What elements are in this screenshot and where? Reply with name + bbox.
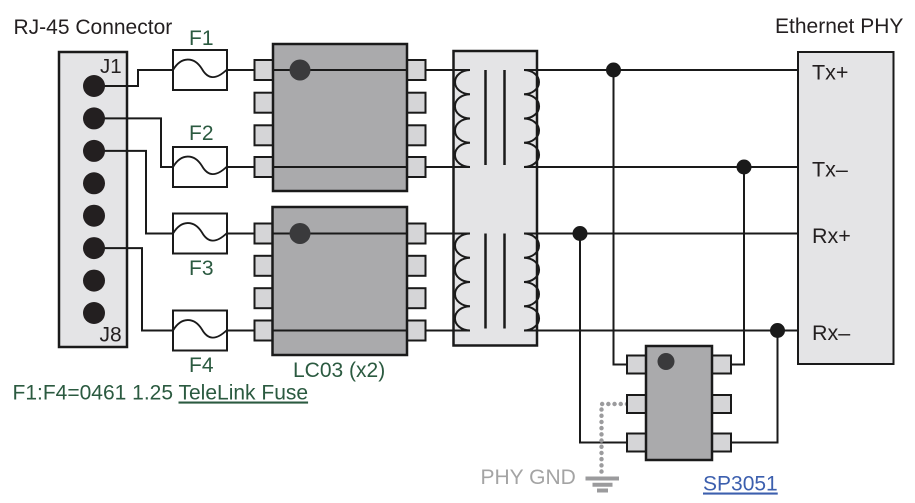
wire Tx- to U3 pin8 bbox=[731, 167, 744, 365]
junction Rx+ bbox=[573, 226, 588, 241]
svg-text:J1: J1 bbox=[100, 55, 122, 78]
svg-text:PHY GND: PHY GND bbox=[481, 466, 576, 489]
wire F2 to U1 bbox=[227, 166, 254, 168]
junction Tx+ bbox=[606, 63, 621, 78]
svg-text:RJ-45 Connector: RJ-45 Connector bbox=[14, 16, 173, 39]
wire Rx- net bbox=[524, 330, 798, 332]
RJ-45 connector J1 body bbox=[59, 52, 127, 347]
svg-text:F2: F2 bbox=[189, 122, 214, 145]
transformer T1 bbox=[454, 51, 540, 346]
svg-text:Rx+: Rx+ bbox=[812, 224, 851, 248]
wire U1 pin5 to transformer bbox=[426, 166, 471, 168]
svg-text:SP3051: SP3051 bbox=[703, 473, 778, 496]
wire U1 pin8 to transformer bbox=[426, 69, 471, 71]
svg-text:LC03 (x2): LC03 (x2) bbox=[293, 359, 385, 382]
connector pin 2 bbox=[83, 107, 105, 129]
svg-text:Ethernet PHY: Ethernet PHY bbox=[775, 15, 903, 38]
Ethernet PHY block bbox=[798, 52, 894, 364]
wire Rx+ net bbox=[524, 233, 798, 235]
svg-text:F4: F4 bbox=[189, 354, 214, 377]
wire pin3 to fuse F3 bbox=[100, 151, 173, 234]
svg-text:J8: J8 bbox=[100, 323, 122, 346]
connector pin 7 bbox=[83, 270, 105, 292]
wire Tx+ to U3 pin1 bbox=[614, 70, 628, 365]
connector pin 4 bbox=[83, 172, 105, 194]
fuse F1 bbox=[173, 50, 227, 90]
connector pin 3 bbox=[83, 140, 105, 162]
suppressor U2 LC03 bbox=[255, 207, 426, 355]
ground PHY GND symbol bbox=[586, 479, 620, 491]
connector pin 5 bbox=[83, 205, 105, 227]
junction Rx- bbox=[770, 323, 785, 338]
wire F1 to U1 bbox=[227, 69, 254, 71]
svg-text:Tx–: Tx– bbox=[812, 158, 848, 182]
wire U2 pin8 to transformer bbox=[426, 233, 471, 235]
wire pin2 to fuse F2 bbox=[100, 118, 173, 167]
svg-text:F1: F1 bbox=[189, 27, 214, 50]
svg-text:Tx+: Tx+ bbox=[812, 61, 848, 85]
connector pin 6 bbox=[83, 237, 105, 259]
wire pin6 to fuse F4 bbox=[100, 248, 173, 330]
wire Tx- net bbox=[524, 166, 798, 168]
fuse F3 bbox=[173, 214, 227, 254]
wire Rx- to U3 pin6 bbox=[731, 331, 778, 443]
wire Rx+ to U3 pin3 bbox=[580, 234, 627, 443]
wire J1 pin1 to fuse F1 bbox=[100, 70, 173, 86]
svg-text:F1:F4=0461 1.25 TeleLink Fuse: F1:F4=0461 1.25 TeleLink Fuse bbox=[13, 382, 309, 405]
connector pin 8 bbox=[83, 302, 105, 324]
junction Tx- bbox=[737, 160, 752, 175]
fuse F2 bbox=[173, 147, 227, 187]
ground wire dotted from U3 pin2 bbox=[602, 404, 628, 476]
suppressor U1 LC03 bbox=[255, 44, 426, 191]
fuse F4 bbox=[173, 311, 227, 351]
IC U3 SP3051 bbox=[627, 346, 731, 460]
svg-text:Rx–: Rx– bbox=[812, 321, 850, 345]
wire U2 pin5 to transformer bbox=[426, 330, 471, 332]
wire F3 to U2 bbox=[227, 233, 254, 235]
svg-text:F3: F3 bbox=[189, 257, 214, 280]
wire F4 to U2 bbox=[227, 330, 254, 332]
wire Tx+ net bbox=[524, 69, 798, 71]
connector pin 1 bbox=[83, 75, 105, 97]
